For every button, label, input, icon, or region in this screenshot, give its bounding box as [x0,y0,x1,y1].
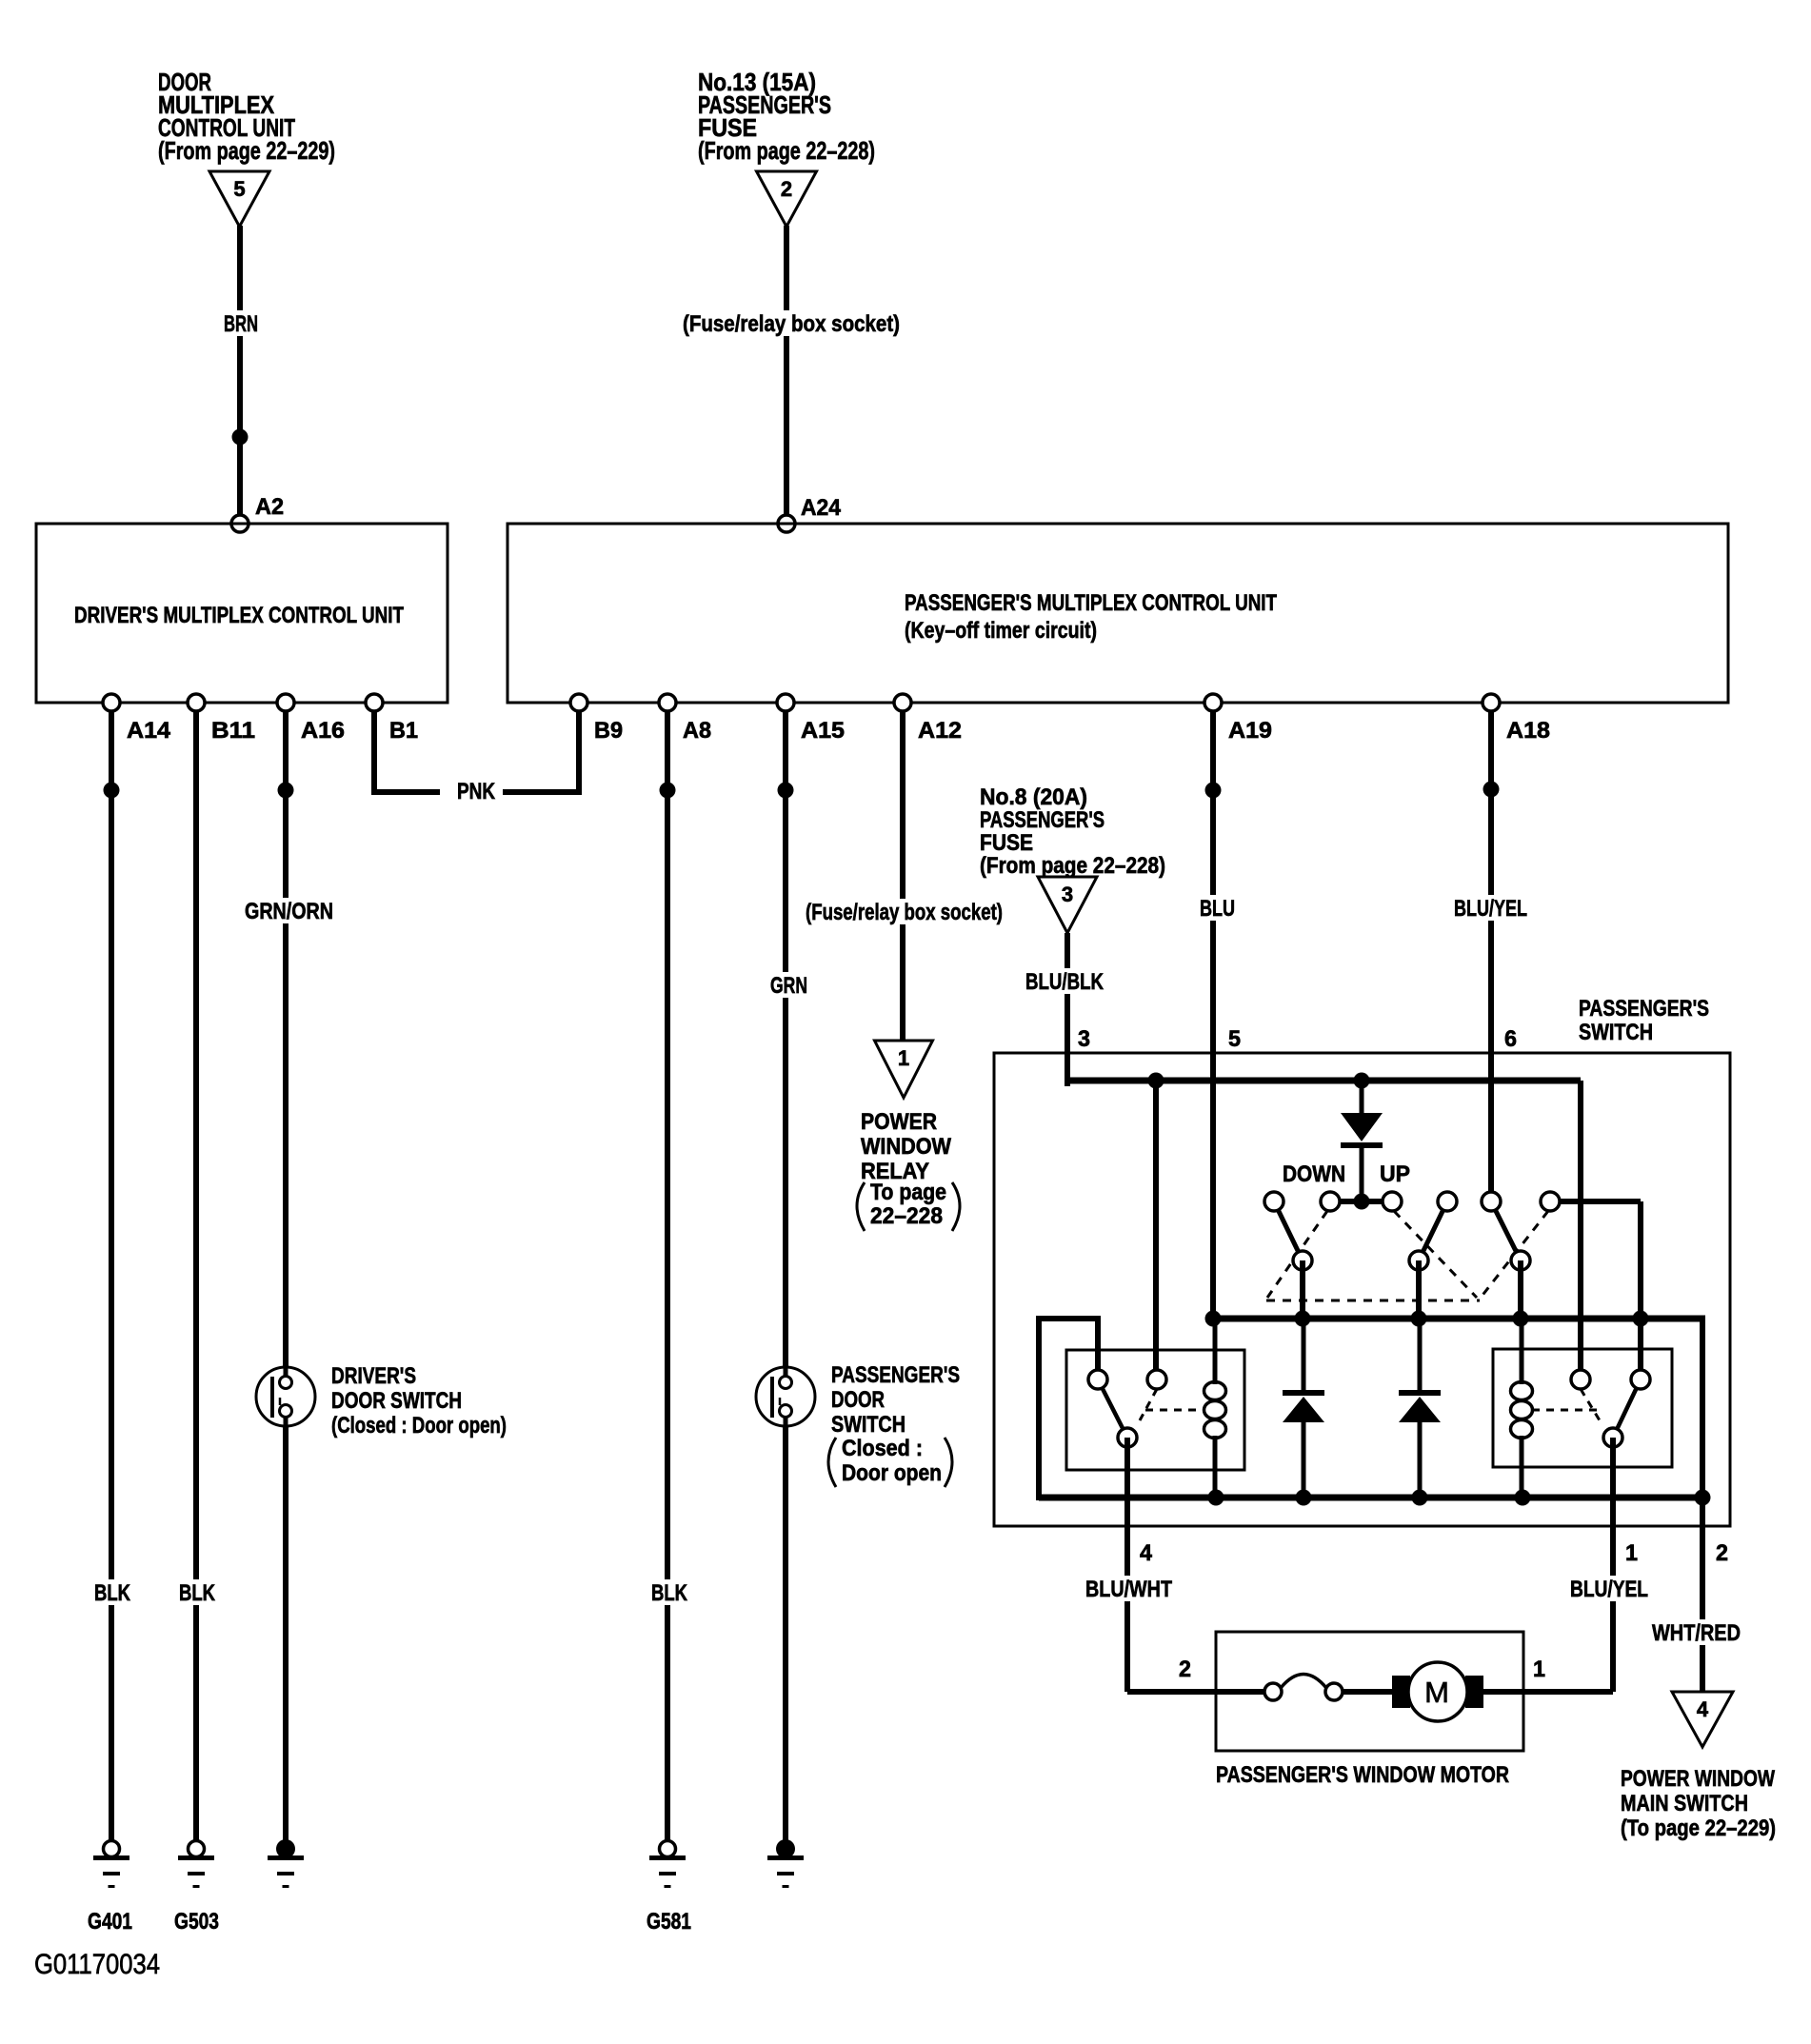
svg-text:(Key–off timer circuit): (Key–off timer circuit) [905,618,1097,644]
svg-text:DOOR SWITCH: DOOR SWITCH [331,1388,462,1414]
junction dot ground rail/diode D3 [1412,1490,1428,1506]
svg-text:BLU/YEL: BLU/YEL [1570,1577,1648,1602]
left relay NO contact circle [1147,1370,1166,1389]
svg-text:PASSENGER'S: PASSENGER'S [1579,996,1709,1022]
wire S3 NC contact to right link [1550,1199,1641,1204]
relay coil L2 (right) [1520,1319,1524,1384]
left relay arm [1098,1379,1127,1438]
wire WHT/RED vertical [1700,1319,1705,1692]
wire bus corner down to right relay contact [1578,1081,1583,1373]
svg-text:DRIVER'S: DRIVER'S [331,1363,416,1389]
wire BLU A19 into passenger's switch [1210,711,1216,1321]
svg-text:2: 2 [781,177,792,201]
wire B11 to ground G503 [193,711,199,1840]
svg-text:PASSENGER'S: PASSENGER'S [980,807,1105,833]
junction dot bus/diode1 [1354,1073,1370,1089]
wire below driver's door switch [283,1425,289,1840]
terminal A24 on passenger's multiplex control unit [778,515,795,532]
svg-text:A18: A18 [1506,718,1550,744]
label BLU/YEL (motor side) [1565,1576,1653,1601]
contact circle S3 left [1482,1192,1501,1211]
wire A14 to ground G401 [109,711,114,1840]
svg-text:1: 1 [1533,1657,1545,1682]
terminal A19 [1204,694,1222,711]
switch S1 arm [1274,1201,1303,1260]
motor M circle [1408,1662,1467,1721]
wire PNK jog B1 to B9 [371,711,377,792]
wire BRN: triangle 5 to A2 [237,226,243,526]
box: driver's multiplex control unit [36,524,448,703]
junction dot at diode node [1354,1194,1370,1210]
wire S3 common drop to relay coil [1518,1260,1523,1321]
svg-text:A15: A15 [801,718,845,744]
diode D2 (cathode up) [1302,1319,1306,1391]
breaker contact circle right [1325,1683,1343,1700]
dashed mechanical linkage [1267,1211,1327,1298]
splice dot on A16 wire [278,783,294,799]
svg-text:B9: B9 [594,718,623,744]
junction dot ground rail/WHT/RED [1695,1490,1711,1506]
svg-text:A12: A12 [918,718,962,744]
label BLU/YEL [1449,895,1532,921]
wire pin 1 BLU/YEL from right relay common [1610,1438,1616,1692]
svg-text:BLU/WHT: BLU/WHT [1085,1577,1172,1602]
switch S3 arm [1491,1201,1521,1260]
wire pin 4 BLU/WHT from left relay common [1124,1438,1130,1692]
ground G581 symbol [660,1841,676,1857]
svg-text:A14: A14 [127,718,171,744]
terminal A2 on driver's multiplex control unit [231,515,249,532]
ground (passenger's door switch) [776,1839,795,1858]
svg-text:3: 3 [1062,883,1073,906]
svg-text:SWITCH: SWITCH [831,1412,905,1438]
box: passenger's switch [994,1053,1730,1526]
box: passenger's window motor [1216,1632,1523,1751]
svg-text:PASSENGER'S MULTIPLEX CONTROL: PASSENGER'S MULTIPLEX CONTROL UNIT [905,590,1277,616]
contact circle S2 UP [1383,1192,1402,1211]
diode D3 (cathode up) [1418,1319,1423,1391]
svg-text:PASSENGER'S: PASSENGER'S [831,1362,960,1388]
svg-text:To page: To page [870,1180,946,1205]
splice dot on BRN wire [232,429,249,446]
label BLK on A8 [647,1579,692,1605]
wire branch to left relay NO contact [1153,1081,1159,1373]
svg-text:PNK: PNK [457,779,496,804]
label WHT/RED [1647,1619,1745,1645]
motor brush right [1465,1676,1483,1708]
svg-text:A8: A8 [683,718,711,744]
svg-text:4: 4 [1140,1540,1153,1566]
terminal B1 [366,694,383,711]
wire bus: pin 3 feed across switch [1066,1078,1581,1084]
right relay contact circle left [1571,1370,1590,1389]
wire right link to WHT/RED drop [1641,1316,1705,1322]
left relay dashed linkage [1140,1389,1157,1420]
svg-text:G401: G401 [88,1909,132,1935]
wire A12 to power window relay [900,711,905,1042]
splice dot on A18 wire [1483,782,1500,798]
terminal A18 [1483,694,1500,711]
junction dot ground rail/coil L2 [1515,1490,1531,1506]
contact circle S2 right [1438,1192,1457,1211]
wire A8 (BLK) to ground G581 [665,711,670,1840]
svg-text:BLU/YEL: BLU/YEL [1454,896,1527,922]
svg-text:BRN: BRN [224,311,258,337]
contact circle S1 DOWN [1321,1192,1340,1211]
splice dot on A19 wire [1205,783,1222,799]
svg-text:BLK: BLK [651,1580,688,1606]
svg-text:WHT/RED: WHT/RED [1652,1620,1741,1646]
terminal A14 [103,694,120,711]
label (Fuse/relay box socket) [678,310,905,336]
terminal B9 [570,694,587,711]
svg-text:A24: A24 [801,495,842,521]
junction dot ground rail/coil L1 [1208,1490,1224,1506]
svg-text:4: 4 [1697,1697,1709,1721]
svg-text:BLU: BLU [1200,896,1235,922]
svg-text:POWER: POWER [861,1109,937,1135]
svg-text:DOOR: DOOR [831,1387,885,1413]
svg-text:G581: G581 [647,1909,691,1935]
node segment DOWN-UP [1330,1199,1392,1204]
svg-text:1: 1 [1625,1540,1638,1566]
wire motor right feed [1483,1689,1613,1695]
svg-text:A2: A2 [255,494,284,520]
terminal A12 [894,694,911,711]
ground (driver's door switch) [276,1839,295,1858]
passenger's door switch symbol [756,1367,815,1426]
svg-text:(To page 22–229): (To page 22–229) [1621,1816,1776,1841]
svg-text:2: 2 [1179,1657,1191,1682]
ground G401 symbol [104,1841,120,1857]
svg-text:BLU/BLK: BLU/BLK [1025,969,1105,995]
label (Fuse/relay box socket) on A12 [801,899,1007,924]
svg-text:22–228: 22–228 [870,1203,943,1229]
svg-text:No.8 (20A): No.8 (20A) [980,784,1087,810]
svg-text:2: 2 [1716,1540,1728,1566]
contact circle S3 right [1541,1192,1560,1211]
svg-text:M: M [1424,1676,1449,1709]
junction dot ground rail/diode D2 [1296,1490,1312,1506]
svg-text:GRN/ORN: GRN/ORN [245,899,333,924]
connector triangle 5 (from door multiplex control unit) [209,171,269,227]
connector triangle 3 (No.8 fuse) [1038,877,1097,933]
svg-text:WINDOW: WINDOW [861,1134,951,1160]
label BLU/BLK [1021,968,1108,994]
right relay arm [1613,1379,1641,1438]
svg-text:3: 3 [1078,1026,1090,1052]
svg-text:G01170034: G01170034 [34,1949,160,1980]
box: left relay [1066,1350,1244,1470]
big parens around Closed Door open [828,1438,836,1487]
svg-text:BLK: BLK [94,1580,131,1606]
right relay common contact circle [1603,1428,1622,1447]
wire breaker to brush [1334,1689,1393,1695]
breaker contact circle left [1264,1683,1282,1700]
common contact circle S2 [1409,1251,1428,1270]
connector triangle 4 (power window main switch) [1672,1692,1733,1747]
svg-text:A19: A19 [1228,718,1272,744]
wire rail (switch commons) [1211,1316,1643,1322]
wire BLU/YEL A18 to switch contact [1488,711,1494,1196]
label BLK on A14 [90,1579,135,1605]
terminal A16 [277,694,294,711]
svg-text:BLK: BLK [179,1580,216,1606]
contact circle S1 left [1264,1192,1284,1211]
svg-text:5: 5 [1228,1026,1241,1052]
motor brush left [1392,1676,1410,1708]
svg-text:5: 5 [233,177,245,201]
svg-text:G503: G503 [174,1909,219,1935]
svg-text:(From page 22–228): (From page 22–228) [698,136,875,165]
common contact circle S3 [1511,1251,1530,1270]
wire: fuse 2 to A24 [784,226,789,526]
svg-text:DOWN: DOWN [1283,1161,1345,1187]
left relay NC contact circle [1088,1370,1107,1389]
connector triangle 1 (power window relay) [875,1041,933,1098]
svg-text:UP: UP [1380,1161,1410,1187]
big parens around To page 22-228 [857,1182,865,1231]
svg-text:(From page 22–228): (From page 22–228) [980,853,1165,879]
splice dot on A14 wire [104,783,120,799]
svg-text:(Closed : Door open): (Closed : Door open) [331,1413,507,1439]
terminal A8 [659,694,676,711]
label BLU/WHT [1081,1576,1177,1601]
svg-text:6: 6 [1504,1026,1517,1052]
svg-text:1: 1 [898,1046,909,1070]
svg-text:Closed :: Closed : [842,1436,923,1461]
wire below passenger's door switch [783,1425,788,1840]
wire BLU/BLK: fuse 3 into passenger's switch [1065,933,1070,1086]
connector triangle 2 (passenger's fuse) [757,171,817,227]
svg-text:B11: B11 [211,718,255,744]
svg-text:(From page 22–229): (From page 22–229) [158,136,335,165]
junction dot rail1/right link [1633,1311,1649,1327]
junction dot rail1/S2-D3 [1411,1311,1427,1327]
wire S1 common drop [1300,1260,1305,1321]
wire A15 (GRN) to passenger's door switch [783,711,788,1368]
svg-text:(Fuse/relay box socket): (Fuse/relay box socket) [806,900,1003,925]
svg-text:SWITCH: SWITCH [1579,1020,1653,1045]
svg-text:DRIVER'S MULTIPLEX CONTROL UNI: DRIVER'S MULTIPLEX CONTROL UNIT [74,603,404,628]
label BLK on B11 [174,1579,220,1605]
svg-text:Door open: Door open [842,1460,942,1486]
terminal A15 [777,694,794,711]
right relay dashed linkage [1581,1389,1600,1420]
terminal B11 [188,694,205,711]
wire motor left feed [1127,1689,1276,1695]
wire S2 common drop [1416,1260,1422,1321]
svg-text:PASSENGER'S WINDOW MOTOR: PASSENGER'S WINDOW MOTOR [1216,1762,1509,1788]
left relay common contact circle [1118,1428,1137,1447]
circuit breaker arc [1281,1675,1326,1689]
wire ground rail [1039,1495,1705,1501]
svg-text:A16: A16 [301,718,345,744]
box: right relay [1493,1349,1672,1467]
junction dot rail1/S1-D2 [1295,1311,1311,1327]
ground G503 symbol [189,1841,205,1857]
right relay contact circle right [1631,1370,1650,1389]
junction dot bus/left-relay branch [1148,1073,1164,1089]
relay coil L1 (left) [1213,1319,1218,1384]
svg-text:POWER WINDOW: POWER WINDOW [1621,1766,1775,1792]
wire right relay NO contact drop [1638,1319,1643,1373]
diode D1 (anode to bus, cathode to switch node) [1360,1081,1364,1114]
junction dot rail1/A19 [1205,1311,1222,1327]
svg-text:FUSE: FUSE [980,830,1033,856]
wire A16 (GRN/ORN) to driver's door switch [283,711,289,1368]
wire left relay NC contact loop to ground rail [1095,1319,1101,1373]
label BLU [1195,895,1240,921]
svg-text:MAIN SWITCH: MAIN SWITCH [1621,1791,1748,1816]
splice dot on A15 wire [778,783,794,799]
junction dot rail1/S3-coil [1513,1311,1529,1327]
svg-text:(Fuse/relay box socket): (Fuse/relay box socket) [683,311,900,337]
driver's door switch symbol [256,1367,315,1426]
switch S2 arm [1419,1201,1447,1260]
svg-text:GRN: GRN [770,973,807,999]
common contact circle S1 [1293,1251,1312,1270]
box: passenger's multiplex control unit [507,524,1728,703]
label GRN/ORN [240,898,338,923]
label GRN [766,972,812,998]
svg-text:B1: B1 [389,718,418,744]
splice dot on A8 wire [660,783,676,799]
label BRN [219,310,263,336]
